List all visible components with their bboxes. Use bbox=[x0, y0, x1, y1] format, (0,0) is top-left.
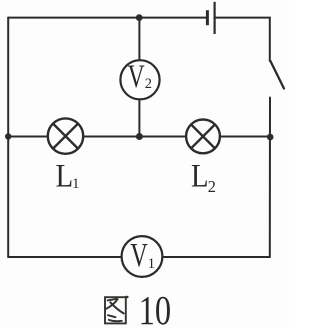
svg-text:2: 2 bbox=[145, 76, 152, 92]
svg-text:10: 10 bbox=[139, 287, 172, 328]
wire: bottom horizontal bbox=[8, 256, 270, 258]
svg-text:V: V bbox=[130, 237, 148, 274]
junction node: top (V2 branch to top wire) bbox=[136, 14, 143, 21]
svg-text:1: 1 bbox=[72, 176, 80, 192]
wire: voltmeter V2 branch vertical bbox=[138, 18, 140, 137]
wire: left vertical side bbox=[7, 18, 9, 257]
wire: right vertical, switch to bottom corner bbox=[269, 98, 271, 258]
junction node: center (V2 branch to lamp branch) bbox=[136, 133, 143, 140]
svg-text:1: 1 bbox=[148, 256, 156, 272]
junction node: right middle (lamp branch to right wire) bbox=[267, 134, 274, 141]
wire: middle horizontal lamp branch bbox=[8, 136, 270, 138]
voltmeter V1 bbox=[122, 236, 163, 277]
svg-text:L: L bbox=[56, 158, 74, 194]
svg-text:L: L bbox=[191, 159, 209, 195]
svg-text:V: V bbox=[128, 59, 145, 95]
battery B1 bbox=[207, 2, 214, 34]
label L1 bbox=[56, 158, 80, 194]
voltmeter V2 bbox=[120, 59, 159, 99]
caption: character 图 (drawn) bbox=[105, 297, 128, 324]
junction node: left middle (lamp branch to left wire) bbox=[5, 133, 11, 139]
wire: top horizontal, right of battery bbox=[216, 17, 270, 19]
lamp L1 bbox=[48, 118, 83, 153]
wire: right vertical, top corner to switch bbox=[269, 18, 271, 61]
label L2 bbox=[191, 159, 216, 196]
lamp L2 bbox=[186, 119, 220, 153]
wire: top horizontal, left of battery bbox=[8, 17, 206, 19]
switch S1 (open) blade bbox=[270, 61, 284, 89]
svg-text:2: 2 bbox=[208, 177, 216, 196]
